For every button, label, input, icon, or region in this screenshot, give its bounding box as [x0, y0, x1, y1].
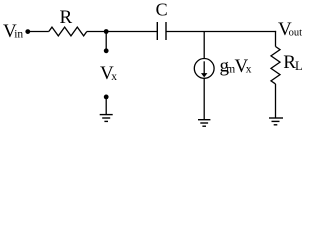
node Vx [100, 29, 117, 84]
wire [166, 31, 276, 33]
wire [28, 31, 49, 33]
resistor RL [271, 47, 303, 84]
node Vin [3, 21, 30, 42]
svg-text:C: C [156, 0, 168, 20]
wire [275, 84, 277, 118]
ground [269, 118, 283, 125]
resistor R [49, 7, 87, 36]
current source gmVx [194, 55, 252, 78]
svg-text:x: x [246, 64, 252, 76]
svg-text:in: in [14, 29, 23, 41]
wire [203, 32, 205, 59]
node Vout [278, 19, 302, 40]
ground [100, 95, 113, 122]
wire [87, 31, 158, 33]
capacitor C [156, 0, 168, 40]
svg-text:R: R [60, 7, 73, 28]
wire [203, 78, 205, 119]
svg-text:out: out [289, 28, 303, 39]
svg-text:x: x [111, 71, 117, 83]
svg-text:L: L [295, 59, 303, 73]
ground [198, 120, 210, 127]
wire [275, 31, 277, 47]
